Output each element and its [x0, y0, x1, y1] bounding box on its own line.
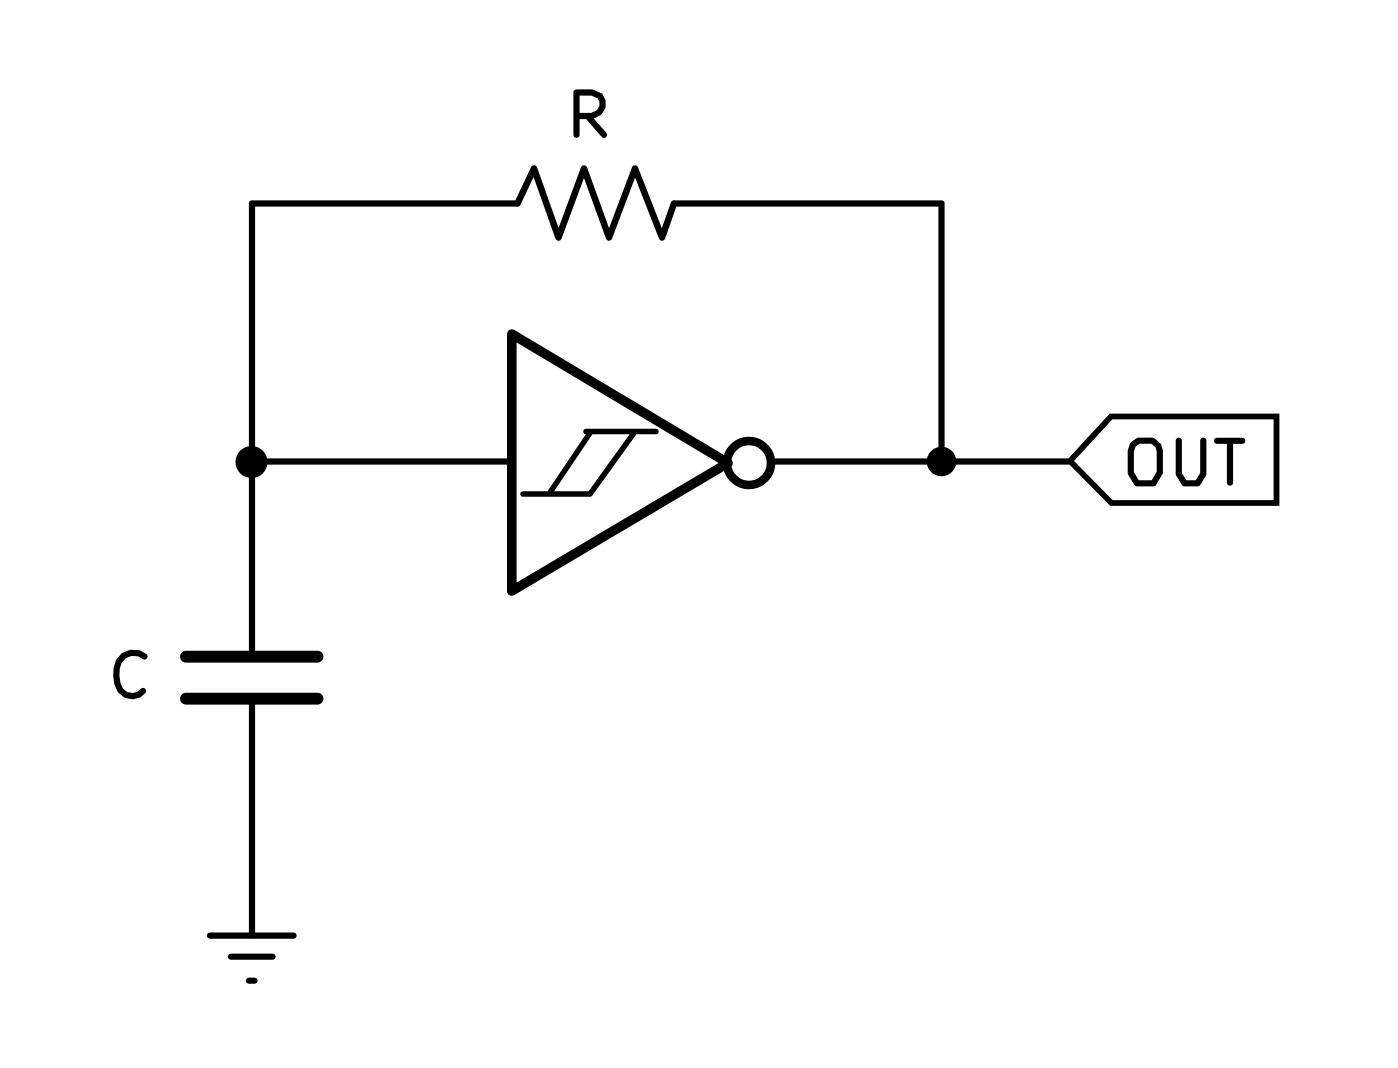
wire left vertical (feedback to input) — [249, 204, 255, 463]
wire capacitor bottom to ground — [249, 705, 255, 936]
wire top horizontal left — [252, 200, 518, 206]
node junction left (input node) — [236, 446, 268, 478]
label OUT text O — [1131, 441, 1160, 484]
resistor R — [518, 169, 675, 238]
node junction right (output node) — [927, 447, 957, 477]
hysteresis symbol — [523, 432, 656, 495]
op-amp U1 (Schmitt-trigger inverter) — [512, 334, 728, 591]
ground bar 2 — [231, 954, 273, 960]
label OUT text T — [1217, 441, 1242, 483]
capacitor C bottom plate — [186, 693, 318, 705]
wire right vertical (output to feedback) — [938, 204, 944, 462]
inverter output bubble — [727, 441, 771, 485]
wire inverter input — [252, 458, 512, 464]
wire capacitor top — [249, 462, 255, 651]
label OUT text U — [1179, 441, 1204, 484]
ground bar 3 — [249, 978, 255, 984]
label R — [577, 93, 605, 135]
capacitor C top plate — [186, 651, 318, 663]
wire inverter output — [776, 458, 1071, 464]
ground bar 1 — [210, 932, 294, 938]
OUT flag outline — [1070, 417, 1277, 504]
wire top horizontal right — [674, 200, 942, 206]
label C — [116, 653, 144, 696]
